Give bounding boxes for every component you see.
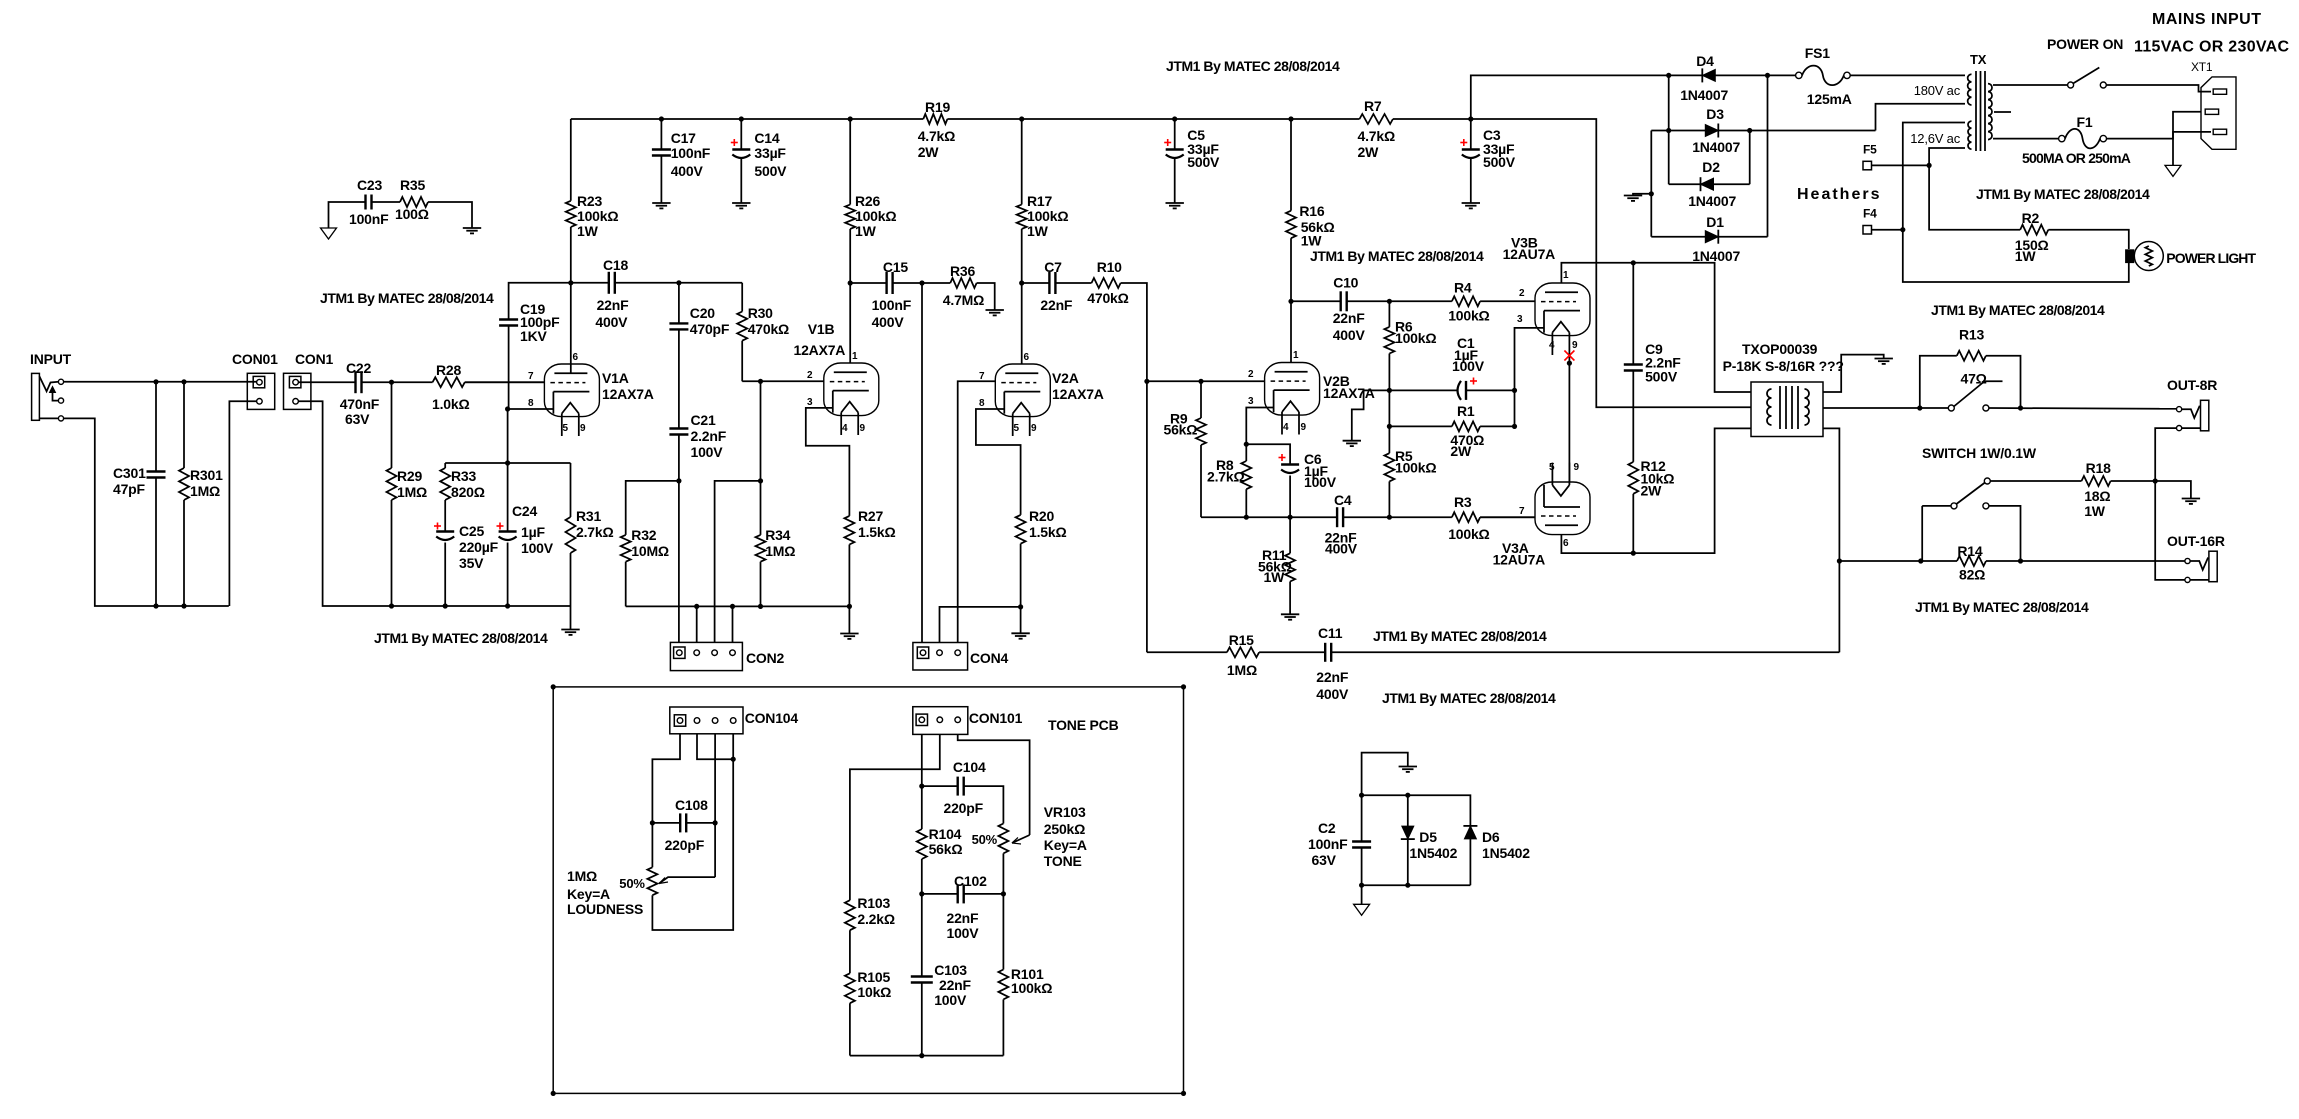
node 16R tap <box>1837 558 1842 563</box>
svg-text:10MΩ: 10MΩ <box>631 543 669 559</box>
triode V2B <box>1265 363 1320 416</box>
svg-text:R23: R23 <box>577 193 602 209</box>
wire V2B cathode <box>1246 408 1273 445</box>
wire heater pins 9 link <box>1568 355 1570 482</box>
svg-text:35V: 35V <box>459 555 484 571</box>
resistor R10 <box>1092 278 1121 288</box>
ground R35 <box>463 227 481 229</box>
svg-text:220pF: 220pF <box>665 837 705 853</box>
svg-text:R26: R26 <box>855 193 880 209</box>
resistor R8 <box>1245 444 1247 461</box>
node V2B anode <box>1288 299 1293 304</box>
svg-text:TXOP00039: TXOP00039 <box>1742 341 1818 357</box>
node C25 bottom <box>443 603 448 608</box>
svg-text:6: 6 <box>1024 352 1030 363</box>
wire CON1 pin1 to C22 <box>298 381 355 383</box>
arrow ground C23 <box>321 228 337 239</box>
node bus R34 <box>758 604 763 609</box>
ground V2A stage <box>1011 632 1029 634</box>
capacitor C4 <box>1336 507 1338 527</box>
svg-text:100V: 100V <box>947 925 980 941</box>
resistor R3 <box>1389 516 1452 518</box>
resistor R9 <box>1200 381 1202 418</box>
diode D3 <box>1705 125 1718 137</box>
connector CON104 <box>670 707 743 734</box>
svg-text:1MΩ: 1MΩ <box>765 543 795 559</box>
node rail R17 <box>1019 116 1024 121</box>
svg-text:22nF: 22nF <box>1316 669 1349 685</box>
svg-text:2W: 2W <box>918 144 940 160</box>
svg-text:12AU7A: 12AU7A <box>1493 552 1546 568</box>
svg-text:400V: 400V <box>671 163 704 179</box>
svg-text:R31: R31 <box>576 508 601 524</box>
svg-text:500V: 500V <box>1187 154 1220 170</box>
svg-text:18Ω: 18Ω <box>2084 488 2110 504</box>
lamp POWER LIGHT <box>2126 250 2134 263</box>
wire 16R switch left <box>1922 505 1951 507</box>
svg-text:1W: 1W <box>2084 503 2106 519</box>
svg-text:100V: 100V <box>691 444 724 460</box>
wire R6-R1 link <box>1388 390 1390 426</box>
capacitor C10 <box>1291 300 1341 302</box>
wire switch to XT1 <box>2106 85 2211 92</box>
svg-text:R20: R20 <box>1029 508 1054 524</box>
wire V1A anode to tube <box>570 283 572 374</box>
node bridge right top <box>1765 73 1770 78</box>
wire OPT secondary top to ground <box>1823 355 1884 392</box>
svg-text:MAINS INPUT: MAINS INPUT <box>2152 11 2262 28</box>
svg-text:63V: 63V <box>1312 852 1337 868</box>
terminal F5 <box>1863 161 1872 170</box>
node D5 top <box>1405 793 1410 798</box>
svg-text:33µF: 33µF <box>754 145 786 161</box>
svg-text:1KV: 1KV <box>520 328 547 344</box>
capacitor C1 electrolytic <box>1389 389 1458 391</box>
svg-text:TONE: TONE <box>1044 853 1082 869</box>
capacitor C20 <box>678 283 680 324</box>
svg-text:R1: R1 <box>1457 403 1475 419</box>
node C24 top <box>505 460 510 465</box>
node R1 left <box>1387 424 1392 429</box>
node R20 bottom <box>1018 604 1023 609</box>
svg-text:OUT-16R: OUT-16R <box>2167 533 2225 549</box>
svg-text:1W: 1W <box>1264 569 1286 585</box>
resistor R1 <box>1389 425 1452 427</box>
node bus CON2 pin4 <box>730 604 735 609</box>
ground C3 <box>1462 202 1480 204</box>
wire CON101 pin2 <box>850 734 940 900</box>
svg-text:1MΩ: 1MΩ <box>190 483 220 499</box>
node tone pcb corner TR <box>1181 684 1186 689</box>
node pin2-pin4 join <box>731 757 736 762</box>
svg-text:1N4007: 1N4007 <box>1688 193 1736 209</box>
svg-text:D6: D6 <box>1482 829 1500 845</box>
node V1B anode <box>848 280 853 285</box>
wire V1B grid to CON2 pin3 <box>760 381 762 481</box>
svg-text:180V ac: 180V ac <box>1914 83 1961 98</box>
svg-text:3: 3 <box>1517 314 1523 325</box>
node V1A anode <box>568 280 573 285</box>
svg-text:POWER LIGHT: POWER LIGHT <box>2166 250 2256 266</box>
connector CON4 <box>913 643 968 671</box>
node R301 bottom <box>181 603 186 608</box>
svg-text:F4: F4 <box>1863 207 1877 221</box>
svg-text:JTM1 By MATEC 28/08/2014: JTM1 By MATEC 28/08/2014 <box>1166 58 1340 74</box>
svg-text:D2: D2 <box>1702 159 1720 175</box>
wire F1 to XT1 <box>2107 132 2212 139</box>
node rail R16 <box>1288 116 1293 121</box>
node V1B grid <box>758 379 763 384</box>
capacitor C11 <box>1324 643 1326 662</box>
jack OUT-8R <box>2201 400 2209 431</box>
diode D6 <box>1464 826 1476 839</box>
svg-text:C10: C10 <box>1333 275 1358 291</box>
svg-text:1: 1 <box>852 351 858 362</box>
capacitor C19 <box>509 283 571 320</box>
diode D5 <box>1407 795 1409 826</box>
arrow ground C2 <box>1354 904 1370 915</box>
capacitor C3 electrolytic <box>1470 119 1472 150</box>
svg-text:100V: 100V <box>521 540 554 556</box>
svg-text:1.5kΩ: 1.5kΩ <box>1029 524 1066 540</box>
svg-text:JTM1 By MATEC 28/08/2014: JTM1 By MATEC 28/08/2014 <box>1931 302 2105 318</box>
wire TX mains tap stub <box>1994 111 2011 113</box>
node R1 right <box>1512 424 1517 429</box>
svg-text:100kΩ: 100kΩ <box>577 208 618 224</box>
wire ground stub bridge <box>1633 194 1651 196</box>
node C1 right <box>1512 388 1517 393</box>
svg-text:100kΩ: 100kΩ <box>1011 980 1052 996</box>
svg-text:470kΩ: 470kΩ <box>1087 290 1128 306</box>
node tone pcb corner BR <box>1181 1091 1186 1096</box>
svg-text:C23: C23 <box>357 177 382 193</box>
ground R11 <box>1281 613 1299 615</box>
svg-text:1µF: 1µF <box>521 524 545 540</box>
svg-text:12AX7A: 12AX7A <box>1323 385 1375 401</box>
svg-text:CON4: CON4 <box>970 650 1009 666</box>
svg-text:7: 7 <box>979 371 985 382</box>
resistor R23 <box>570 119 572 201</box>
svg-text:R7: R7 <box>1364 98 1382 114</box>
svg-text:C15: C15 <box>883 259 908 275</box>
svg-text:7: 7 <box>528 371 534 382</box>
wire 8R to jack <box>1989 407 2177 410</box>
wire V2B grid line <box>1147 380 1265 382</box>
svg-text:500V: 500V <box>754 163 787 179</box>
resistor R15 <box>1227 647 1259 657</box>
svg-text:100nF: 100nF <box>349 211 389 227</box>
svg-text:100kΩ: 100kΩ <box>1395 330 1436 346</box>
node R4-R6 <box>1387 299 1392 304</box>
svg-text:63V: 63V <box>345 411 370 427</box>
svg-text:500V: 500V <box>1645 368 1678 384</box>
svg-text:9: 9 <box>1301 422 1307 433</box>
svg-text:1.5kΩ: 1.5kΩ <box>858 524 895 540</box>
svg-text:12,6V ac: 12,6V ac <box>1910 131 1960 146</box>
svg-text:R30: R30 <box>748 305 773 321</box>
svg-text:C104: C104 <box>953 759 986 775</box>
svg-text:2: 2 <box>1519 288 1525 299</box>
svg-text:R34: R34 <box>765 527 790 543</box>
svg-text:JTM1 By MATEC 28/08/2014: JTM1 By MATEC 28/08/2014 <box>320 290 494 306</box>
node input-C301 <box>153 379 158 384</box>
connector CON101 <box>913 707 968 735</box>
capacitor C24 electrolytic <box>507 463 509 532</box>
node R14 right <box>2018 558 2023 563</box>
potentiometer LOUDNESS 1M <box>647 867 657 895</box>
svg-text:R27: R27 <box>858 508 883 524</box>
resistor R7 <box>1360 114 1393 124</box>
svg-text:100kΩ: 100kΩ <box>1027 208 1068 224</box>
svg-text:C24: C24 <box>512 503 537 519</box>
svg-text:CON1: CON1 <box>295 351 334 367</box>
svg-text:8: 8 <box>528 398 534 409</box>
svg-text:R301: R301 <box>190 467 223 483</box>
svg-text:3: 3 <box>807 397 813 408</box>
node tone pcb corner BL <box>551 1091 556 1096</box>
svg-text:R10: R10 <box>1097 259 1122 275</box>
node rail R26 <box>848 116 853 121</box>
svg-text:100kΩ: 100kΩ <box>1448 308 1489 324</box>
svg-text:470pF: 470pF <box>690 321 730 337</box>
wire 12.6V bottom tap <box>1929 148 2020 230</box>
node C301 bottom <box>153 603 158 608</box>
svg-text:1W: 1W <box>1027 223 1049 239</box>
wire V3A anode <box>1561 428 1751 553</box>
node R13 left <box>1917 405 1922 410</box>
svg-text:8: 8 <box>979 398 985 409</box>
svg-text:10kΩ: 10kΩ <box>857 984 891 1000</box>
svg-text:9: 9 <box>1572 340 1578 351</box>
wire NFB line <box>1147 651 1227 653</box>
resistor R36 <box>922 282 950 284</box>
svg-text:22nF: 22nF <box>597 297 630 313</box>
svg-text:2: 2 <box>1248 369 1254 380</box>
wire pin1 to R104 <box>921 786 923 829</box>
svg-text:2.2kΩ: 2.2kΩ <box>857 911 894 927</box>
wire V3B anode <box>1561 263 1751 392</box>
capacitor C102 <box>922 893 958 895</box>
diode D2 <box>1701 178 1714 190</box>
ground OPT <box>1875 358 1893 360</box>
wire C2 block top bus <box>1362 795 1471 826</box>
svg-text:12AX7A: 12AX7A <box>794 342 846 358</box>
capacitor C15 <box>850 282 886 284</box>
svg-text:D5: D5 <box>1419 829 1437 845</box>
wiper VR103 <box>1012 835 1030 843</box>
svg-text:Key=A: Key=A <box>1044 837 1087 853</box>
resistor R35 <box>400 197 428 207</box>
wire V2A anode to tube <box>1021 283 1023 364</box>
node C21-R32 <box>676 478 681 483</box>
node C24 bottom <box>505 603 510 608</box>
svg-text:22nF: 22nF <box>947 910 980 926</box>
wire ground hook C1 <box>1352 390 1390 440</box>
svg-text:1N4007: 1N4007 <box>1692 248 1740 264</box>
svg-text:1W: 1W <box>855 223 877 239</box>
wire 16R sleeve <box>2155 481 2185 580</box>
svg-text:R103: R103 <box>857 895 890 911</box>
transformer TXOP00039 <box>1751 382 1823 437</box>
switch POWER ON <box>2068 82 2074 88</box>
wire 12.6V top tap <box>1903 123 2129 283</box>
wire CON104 pin3 wiper <box>714 734 716 877</box>
ground input stage <box>561 629 579 631</box>
node bus CON2 pin2 <box>694 604 699 609</box>
svg-text:R3: R3 <box>1454 494 1472 510</box>
wire V3B cathode chain <box>1515 328 1545 427</box>
svg-text:22nF: 22nF <box>1040 297 1073 313</box>
svg-text:100kΩ: 100kΩ <box>1448 526 1489 542</box>
svg-text:4: 4 <box>842 423 848 434</box>
capacitor C108 <box>652 822 680 824</box>
resistor R6 <box>1388 301 1390 327</box>
svg-text:4: 4 <box>1283 422 1289 433</box>
wire R32 branch <box>626 481 679 535</box>
svg-text:22nF: 22nF <box>939 977 972 993</box>
svg-text:CON2: CON2 <box>746 650 785 666</box>
node bus R27 <box>847 604 852 609</box>
svg-text:4: 4 <box>1549 340 1555 351</box>
svg-text:100kΩ: 100kΩ <box>855 208 896 224</box>
svg-text:9: 9 <box>1574 462 1580 473</box>
node C1 left <box>1387 388 1392 393</box>
node R13 right <box>2018 405 2023 410</box>
svg-text:JTM1 By MATEC 28/08/2014: JTM1 By MATEC 28/08/2014 <box>1915 599 2089 615</box>
svg-text:F1: F1 <box>2077 114 2093 130</box>
wire CON104 pin4 <box>652 734 733 930</box>
wire cathode bus R33-C24-R31 <box>445 462 570 464</box>
svg-text:CON104: CON104 <box>745 710 799 726</box>
resistor R20 <box>1016 515 1026 544</box>
wire V1A grid <box>465 381 545 383</box>
tone PCB border <box>553 687 1183 1094</box>
triode V1A <box>544 364 599 417</box>
node R34 top <box>758 478 763 483</box>
node rail C14 <box>739 116 744 121</box>
node input-R301 <box>181 379 186 384</box>
svg-text:R19: R19 <box>925 99 950 115</box>
resistor R12 <box>1628 462 1638 494</box>
svg-text:56kΩ: 56kΩ <box>1164 422 1198 438</box>
ground R36 <box>986 309 1004 311</box>
node bridge ground tap <box>1649 191 1654 196</box>
svg-text:250kΩ: 250kΩ <box>1044 821 1085 837</box>
wire CON101 pin3 <box>958 734 1030 835</box>
capacitor C104 <box>922 785 958 787</box>
connector CON2 <box>670 642 742 670</box>
wire V1B cathode <box>806 408 850 516</box>
wire B+ to bridge <box>1471 75 1799 119</box>
wire TX mains top to switch <box>1993 84 2068 86</box>
node R8 top <box>1244 442 1249 447</box>
ground V1B stage <box>840 633 858 635</box>
svg-text:R104: R104 <box>929 826 962 842</box>
svg-text:R32: R32 <box>631 527 656 543</box>
svg-text:50%: 50% <box>619 876 645 891</box>
node C4-R5-R3 <box>1387 515 1392 520</box>
svg-text:R15: R15 <box>1229 632 1254 648</box>
svg-text:6: 6 <box>573 352 579 363</box>
node pin9 <box>1567 361 1572 366</box>
wire C2 block bottom bus <box>1362 884 1471 886</box>
wire 16R switch right <box>1989 506 2021 561</box>
capacitor C9 <box>1632 263 1634 365</box>
wire HT rail <box>571 118 924 120</box>
node V2A anode <box>1019 280 1024 285</box>
svg-text:50%: 50% <box>972 832 998 847</box>
wire CON104 pin2 <box>697 734 733 759</box>
svg-text:1MΩ: 1MΩ <box>567 868 597 884</box>
svg-text:CON01: CON01 <box>232 351 278 367</box>
resistor R4 <box>1389 300 1452 302</box>
svg-text:1N4007: 1N4007 <box>1692 139 1740 155</box>
capacitor C2 <box>1361 795 1363 841</box>
svg-text:D1: D1 <box>1706 214 1724 230</box>
node rail C5 <box>1172 116 1177 121</box>
svg-text:400V: 400V <box>872 314 905 330</box>
svg-text:6: 6 <box>1563 538 1569 549</box>
wire C2 block top hook <box>1362 753 1408 796</box>
wire CON2 pin4 up <box>732 606 734 642</box>
svg-text:D3: D3 <box>1706 106 1724 122</box>
capacitor C22 <box>354 371 356 393</box>
node D5 bottom <box>1405 883 1410 888</box>
svg-text:12AU7A: 12AU7A <box>1503 246 1556 262</box>
svg-text:R2: R2 <box>2022 210 2040 226</box>
resistor R11 <box>1289 517 1291 553</box>
resistor R29 <box>391 382 393 468</box>
node F5 tap <box>1927 163 1932 168</box>
svg-text:400V: 400V <box>1333 327 1366 343</box>
svg-text:R13: R13 <box>1959 327 1984 343</box>
svg-text:R105: R105 <box>857 969 890 985</box>
svg-text:1N5402: 1N5402 <box>1482 845 1530 861</box>
svg-text:47pF: 47pF <box>113 481 146 497</box>
svg-text:C25: C25 <box>459 523 484 539</box>
svg-text:F5: F5 <box>1863 142 1877 156</box>
wire bridge right vertical <box>1767 75 1769 236</box>
capacitor C103 <box>911 975 933 977</box>
svg-text:INPUT: INPUT <box>30 351 72 367</box>
node D3 row right <box>1747 128 1752 133</box>
svg-text:100Ω: 100Ω <box>395 206 429 222</box>
ground R18 <box>2182 498 2200 500</box>
wire V1B grid <box>742 380 824 382</box>
svg-text:820Ω: 820Ω <box>451 484 485 500</box>
connector CON01 <box>247 373 274 409</box>
resistor R18 <box>1990 480 2081 482</box>
wire cathode to bus <box>507 409 509 463</box>
svg-text:400V: 400V <box>1316 686 1349 702</box>
svg-text:1W: 1W <box>1301 233 1323 249</box>
node bridge left top <box>1666 73 1671 78</box>
wire CON4 pin2 <box>940 607 1021 643</box>
terminal F4 <box>1863 226 1872 235</box>
resistor R2 <box>2020 225 2048 235</box>
ground C2 block <box>1399 766 1417 768</box>
ground divider <box>1343 440 1361 442</box>
svg-text:3: 3 <box>1248 396 1254 407</box>
switch 16R <box>1984 478 1990 484</box>
resistor R19 <box>923 114 947 124</box>
svg-text:XT1: XT1 <box>2191 60 2213 74</box>
wire CON1 pin2 to ground bus <box>298 401 570 606</box>
resistor R16 <box>1290 119 1292 211</box>
svg-text:1MΩ: 1MΩ <box>397 484 427 500</box>
svg-text:470nF: 470nF <box>340 396 380 412</box>
node C108 left <box>650 820 655 825</box>
